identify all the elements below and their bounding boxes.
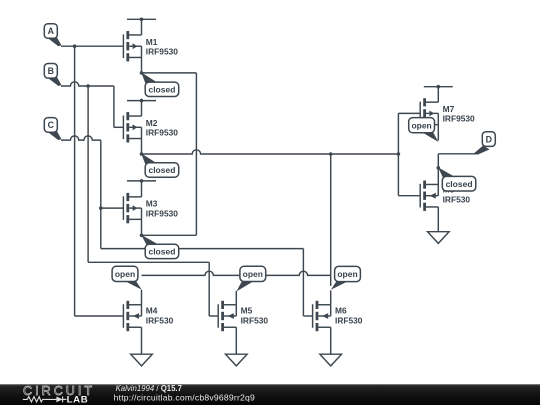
wire node Q drop to M6 switch — [330, 154, 332, 275]
svg-text:D: D — [486, 134, 492, 144]
svg-text:IRF9530: IRF9530 — [146, 208, 178, 218]
svg-text:closed: closed — [148, 84, 175, 94]
junction node C at M3 gate — [99, 206, 103, 210]
svg-text:IRF9530: IRF9530 — [146, 128, 178, 138]
wire node B vertical down — [87, 86, 89, 262]
svg-text:IRF530: IRF530 — [443, 194, 471, 204]
ground under M5 — [226, 354, 248, 366]
svg-text:closed: closed — [148, 247, 175, 257]
svg-text:IRF530: IRF530 — [241, 316, 269, 326]
svg-text:open: open — [411, 120, 431, 130]
callout tail open M4 — [124, 280, 142, 289]
switch state bubble "closed" M8 switch — [442, 176, 476, 191]
wire input C horizontal — [61, 136, 101, 140]
svg-text:C: C — [48, 120, 55, 130]
wire M3 drain node horizontal — [142, 234, 197, 236]
switch state bubble "closed" M1 switch — [145, 82, 179, 96]
junction M2 drain closed switch — [140, 152, 144, 156]
wire M7 source lead — [437, 87, 439, 102]
transistor M4 IRF530 (nmos) — [123, 301, 141, 331]
wire M5 drain lead below open gap — [235, 291, 237, 305]
junction M2 rail — [140, 99, 144, 103]
switch state bubble "open" M7 switch — [409, 118, 435, 133]
junction node Q tee — [329, 152, 333, 156]
wire M7/M8 gate feed vertical — [397, 113, 399, 195]
callout tail open M7 — [421, 131, 439, 142]
ground under M4 — [131, 354, 153, 366]
wire M5 gate lead — [209, 315, 218, 317]
wire M3 drain lead — [141, 219, 143, 235]
supply rail VDD stub above M7 — [424, 86, 453, 88]
wire node D horizontal — [438, 153, 478, 155]
junction M3 drain closed switch — [140, 234, 144, 238]
switch state bubble "open" M4 switch — [112, 266, 138, 281]
svg-text:IRF530: IRF530 — [335, 316, 363, 326]
svg-text:closed: closed — [446, 179, 473, 189]
terminal B input — [44, 64, 57, 79]
svg-text:open: open — [243, 269, 263, 279]
terminal A input — [44, 24, 57, 39]
svg-text:IRF9530: IRF9530 — [146, 47, 178, 57]
svg-text:open: open — [337, 269, 357, 279]
transistor M5 IRF530 (nmos) — [218, 301, 236, 331]
wire M7 drain lead to open gap — [437, 125, 439, 141]
callout tail closed M1 — [141, 72, 159, 86]
wire C feed down to M6 gate — [302, 249, 304, 316]
terminal C input — [44, 118, 57, 133]
callout tail open M5 — [237, 280, 256, 291]
wire M4 drain lead below open gap — [141, 290, 143, 305]
terminal D output — [482, 132, 495, 147]
wire M8 source lead — [437, 207, 439, 232]
switch state bubble "closed" M3 switch — [145, 244, 179, 258]
supply rail VDD stub above M3 — [127, 180, 156, 182]
wire node D down to M8 drain — [437, 154, 439, 185]
wire B branch down to M2 gate — [113, 86, 115, 127]
wire M2 drain lead — [141, 139, 143, 154]
supply rail VDD stub above M2 — [127, 100, 156, 102]
svg-text:open: open — [115, 269, 135, 279]
wire M4 gate lead — [75, 315, 124, 317]
junction node A — [73, 44, 77, 48]
junction M8 drain closed switch — [437, 166, 441, 170]
wire node C lower horizontal to M6 — [101, 248, 304, 250]
wire M6 switch stub — [330, 275, 332, 286]
junction M1 drain closed switch — [140, 71, 144, 75]
svg-text:M5: M5 — [241, 306, 253, 316]
wire input A to M1 gate — [61, 45, 123, 47]
callout tail terminal C flag — [46, 130, 62, 140]
transistor M2 IRF9530 (pmos) — [123, 112, 141, 142]
svg-text:M1: M1 — [146, 37, 158, 47]
callout tail open M6 — [331, 280, 350, 289]
transistor M6 IRF530 (nmos) — [313, 301, 331, 331]
callout tail closed M8 — [438, 167, 457, 180]
wire M2 gate lead — [114, 126, 124, 128]
wire node D diagonal to terminal — [475, 146, 484, 154]
CircuitLab logo schematic squiggle (resistor + diode) — [23, 397, 67, 403]
wire M5 source lead — [235, 327, 237, 354]
wire M1 source lead — [141, 19, 143, 35]
junction M3 rail — [140, 179, 144, 183]
ground under M8 — [428, 232, 450, 244]
wire M3 source lead — [141, 181, 143, 197]
wire node B lower horizontal to M5 — [88, 261, 209, 263]
wire M2 source lead — [141, 101, 143, 116]
transistor M7 IRF9530 (pmos) — [420, 98, 438, 128]
wire M8 gate lead — [398, 195, 420, 197]
callout tail terminal B flag — [46, 76, 62, 86]
wire switch row over M4 M5 M6 — [142, 271, 331, 275]
wire node C vertical down — [100, 140, 102, 249]
switch state bubble "open" M6 switch — [335, 266, 361, 281]
wire M6 drain lead below open gap — [330, 290, 332, 304]
wire M6 source lead — [330, 327, 332, 354]
junction node B — [86, 84, 90, 88]
wire node A vertical down to M4 gate — [74, 46, 76, 316]
svg-text:closed: closed — [148, 165, 175, 175]
svg-text:M4: M4 — [146, 306, 158, 316]
switch state bubble "open" M5 switch — [240, 266, 266, 281]
svg-text:IRF530: IRF530 — [146, 316, 174, 326]
callout tail closed M3 — [141, 235, 161, 249]
svg-text:M3: M3 — [146, 199, 158, 209]
switch state bubble "closed" M2 switch — [145, 163, 179, 177]
wire M1 drain lead — [141, 57, 143, 72]
callout tail terminal D flag — [476, 146, 490, 155]
svg-text:A: A — [48, 26, 55, 36]
transistor M1 IRF9530 (pmos) — [123, 31, 141, 61]
wire B feed down to M5 gate — [208, 262, 210, 316]
supply rail VDD stub above M1 — [127, 18, 156, 20]
transistor M8 IRF530 (nmos) — [420, 181, 438, 211]
wire M3 gate lead — [101, 207, 124, 209]
ground under M6 — [320, 354, 342, 366]
wire M6 gate lead — [303, 315, 312, 317]
junction M7 rail — [437, 85, 441, 89]
svg-text:M6: M6 — [335, 306, 347, 316]
wire M4 source lead — [141, 327, 143, 354]
svg-text:B: B — [48, 66, 54, 76]
svg-text:M7: M7 — [443, 104, 455, 114]
wire node Q from M2 drain to M7/M8 gate feed — [142, 150, 399, 154]
junction M7/M8 gate tee — [397, 152, 401, 156]
transistor M3 IRF9530 (pmos) — [123, 193, 141, 223]
callout tail terminal A flag — [46, 37, 62, 47]
svg-text:M2: M2 — [146, 118, 158, 128]
wire input B horizontal — [61, 82, 114, 86]
svg-text:IRF9530: IRF9530 — [443, 114, 475, 124]
wire link M1 drain to M3 drain vertical — [195, 73, 197, 235]
callout tail closed M2 — [141, 153, 159, 167]
svg-text:LAB: LAB — [67, 395, 89, 405]
svg-text:http://circuitlab.com/cb8v9689: http://circuitlab.com/cb8v9689rr2q9 — [114, 392, 255, 402]
junction M1 rail — [140, 18, 144, 22]
wire M7 gate lead — [398, 112, 420, 114]
wire M1 drain node horizontal — [142, 72, 197, 74]
